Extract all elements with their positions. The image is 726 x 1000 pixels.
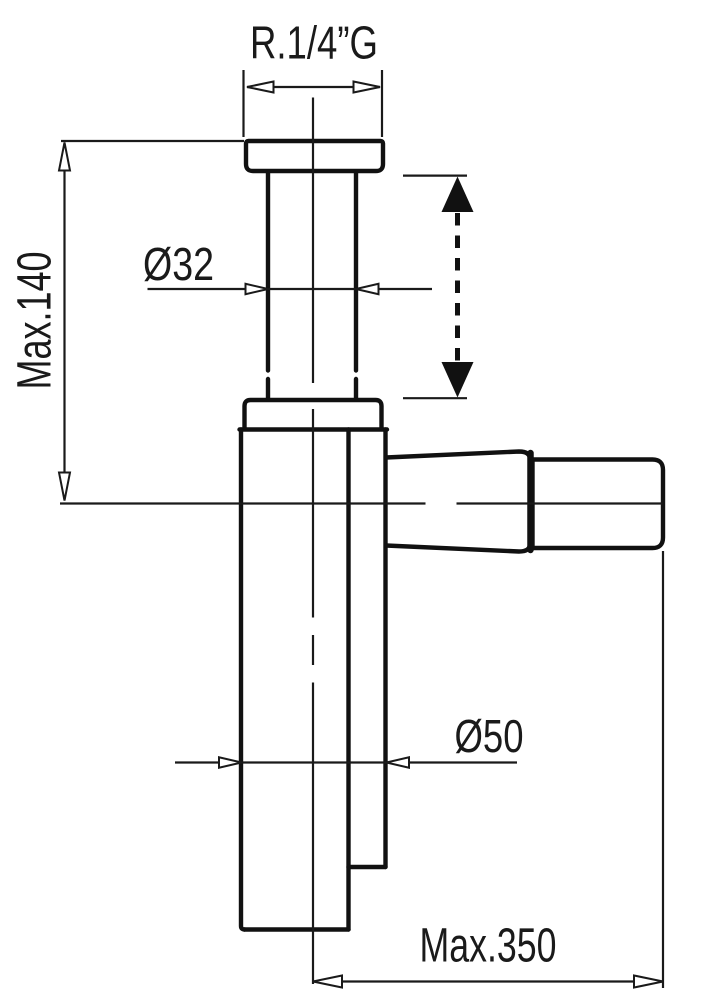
svg-text:Ø50: Ø50 — [455, 710, 524, 762]
inner tube wall — [346, 430, 350, 930]
svg-text:Ø32: Ø32 — [143, 238, 214, 290]
left dim open arrow up — [59, 143, 70, 171]
svg-text:Max.350: Max.350 — [420, 920, 557, 973]
svg-text:Max.140: Max.140 — [9, 252, 62, 390]
left dim line — [63, 144, 65, 499]
top dim line — [247, 86, 380, 88]
dia50 open arrow left-pointing — [387, 757, 410, 767]
dia32 open arrow right-pointing — [246, 284, 269, 294]
top dim extension line right — [381, 70, 383, 137]
outlet compression nut — [386, 452, 530, 552]
dia32 dim line — [148, 288, 433, 290]
top dim open arrow left — [247, 82, 274, 93]
inlet pipe left wall — [266, 173, 270, 398]
right dashed dim top tick — [403, 175, 467, 177]
svg-text:R.1/4”G: R.1/4”G — [250, 17, 378, 69]
body step edge — [349, 865, 386, 869]
outlet tube — [533, 460, 664, 549]
body left wall — [241, 430, 245, 930]
dia50 dim line — [175, 761, 517, 763]
top dim extension line left — [242, 70, 244, 137]
bottom dim line — [313, 980, 663, 982]
right dashed dim dashed shaft — [455, 213, 460, 363]
horizontal centerline / outlet axis — [60, 502, 663, 504]
left dim open arrow down — [59, 473, 70, 501]
bottom dim open arrow left-pointing — [313, 976, 342, 988]
dia50 open arrow right-pointing — [219, 757, 242, 767]
left dim extension line top — [61, 140, 244, 142]
right dashed dim bottom tick — [403, 397, 467, 399]
right dashed dim solid arrow up — [442, 177, 474, 213]
bottom dim extension line — [662, 551, 664, 988]
body top edge — [240, 427, 388, 431]
right dashed dim solid arrow down — [442, 362, 474, 398]
top dim open arrow right — [354, 82, 381, 93]
vertical centerline — [312, 98, 314, 985]
top cap nut (R 1/4 G connector) — [246, 141, 383, 171]
outlet nut right face — [527, 453, 534, 550]
bottom dim open arrow right-pointing — [634, 976, 663, 988]
inlet pipe right wall — [354, 173, 358, 398]
mid flange (body top nut) — [245, 400, 382, 429]
body right wall — [383, 430, 387, 868]
body bottom edge — [244, 927, 349, 931]
dia32 open arrow left-pointing — [356, 284, 379, 294]
